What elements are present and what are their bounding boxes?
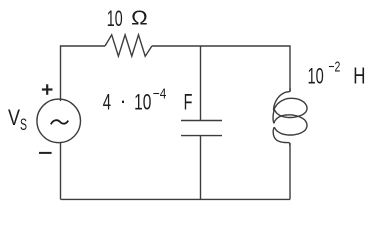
svg-text:F: F	[184, 90, 193, 115]
wire bottom rail	[61, 198, 291, 200]
svg-text:·: ·	[120, 88, 127, 113]
wire top-right segment (resistor to inductor branch)	[152, 46, 290, 91]
svg-text:10: 10	[107, 6, 123, 31]
svg-text:10: 10	[134, 90, 151, 115]
wire left-top segment (source top to node A)	[61, 46, 106, 101]
inductor L1 10^-2 H coil	[273, 88, 307, 146]
resistor R1 10 ohm zigzag	[105, 35, 152, 56]
wire right-bottom segment (inductor to bottom rail)	[289, 143, 291, 199]
svg-text:10: 10	[308, 63, 324, 88]
svg-text:S: S	[20, 116, 27, 134]
plus polarity mark of Vs	[42, 84, 53, 95]
voltage source Vs circle	[37, 99, 81, 143]
capacitor C1 bottom plate	[181, 135, 222, 137]
svg-text:H: H	[353, 63, 365, 89]
capacitor C1 top plate	[181, 120, 222, 122]
minus polarity mark of Vs	[39, 152, 52, 154]
voltage source Vs sine symbol	[51, 120, 68, 124]
svg-text:4: 4	[103, 90, 111, 115]
svg-text:−4: −4	[153, 86, 167, 103]
svg-text:Ω: Ω	[131, 7, 148, 29]
svg-text:−2: −2	[328, 59, 340, 76]
svg-text:V: V	[8, 105, 20, 130]
wire capacitor C1 bottom lead	[200, 136, 202, 200]
wire left-bottom segment (bottom rail to source)	[60, 143, 62, 200]
wire capacitor C1 top lead	[200, 46, 202, 121]
